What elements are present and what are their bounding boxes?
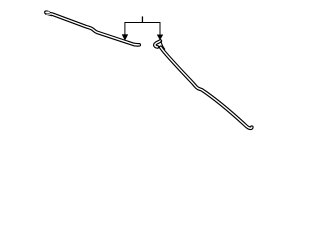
leader arrow left (122, 35, 128, 41)
right strip body (161, 47, 252, 128)
left strip body (50, 14, 139, 45)
right strip top hook lip (155, 41, 160, 47)
left strip hook lower channel (47, 13, 51, 15)
callout bracket (125, 23, 160, 36)
left strip end hook silhouette (44, 10, 52, 16)
right strip top hook neck edge (161, 42, 165, 50)
callout stem tick 1 (141, 16, 143, 22)
part 1 molding right strip (155, 41, 252, 128)
part 1 molding left strip (44, 10, 139, 45)
leader arrow right (157, 35, 163, 40)
left strip hook slot (46, 11, 49, 13)
